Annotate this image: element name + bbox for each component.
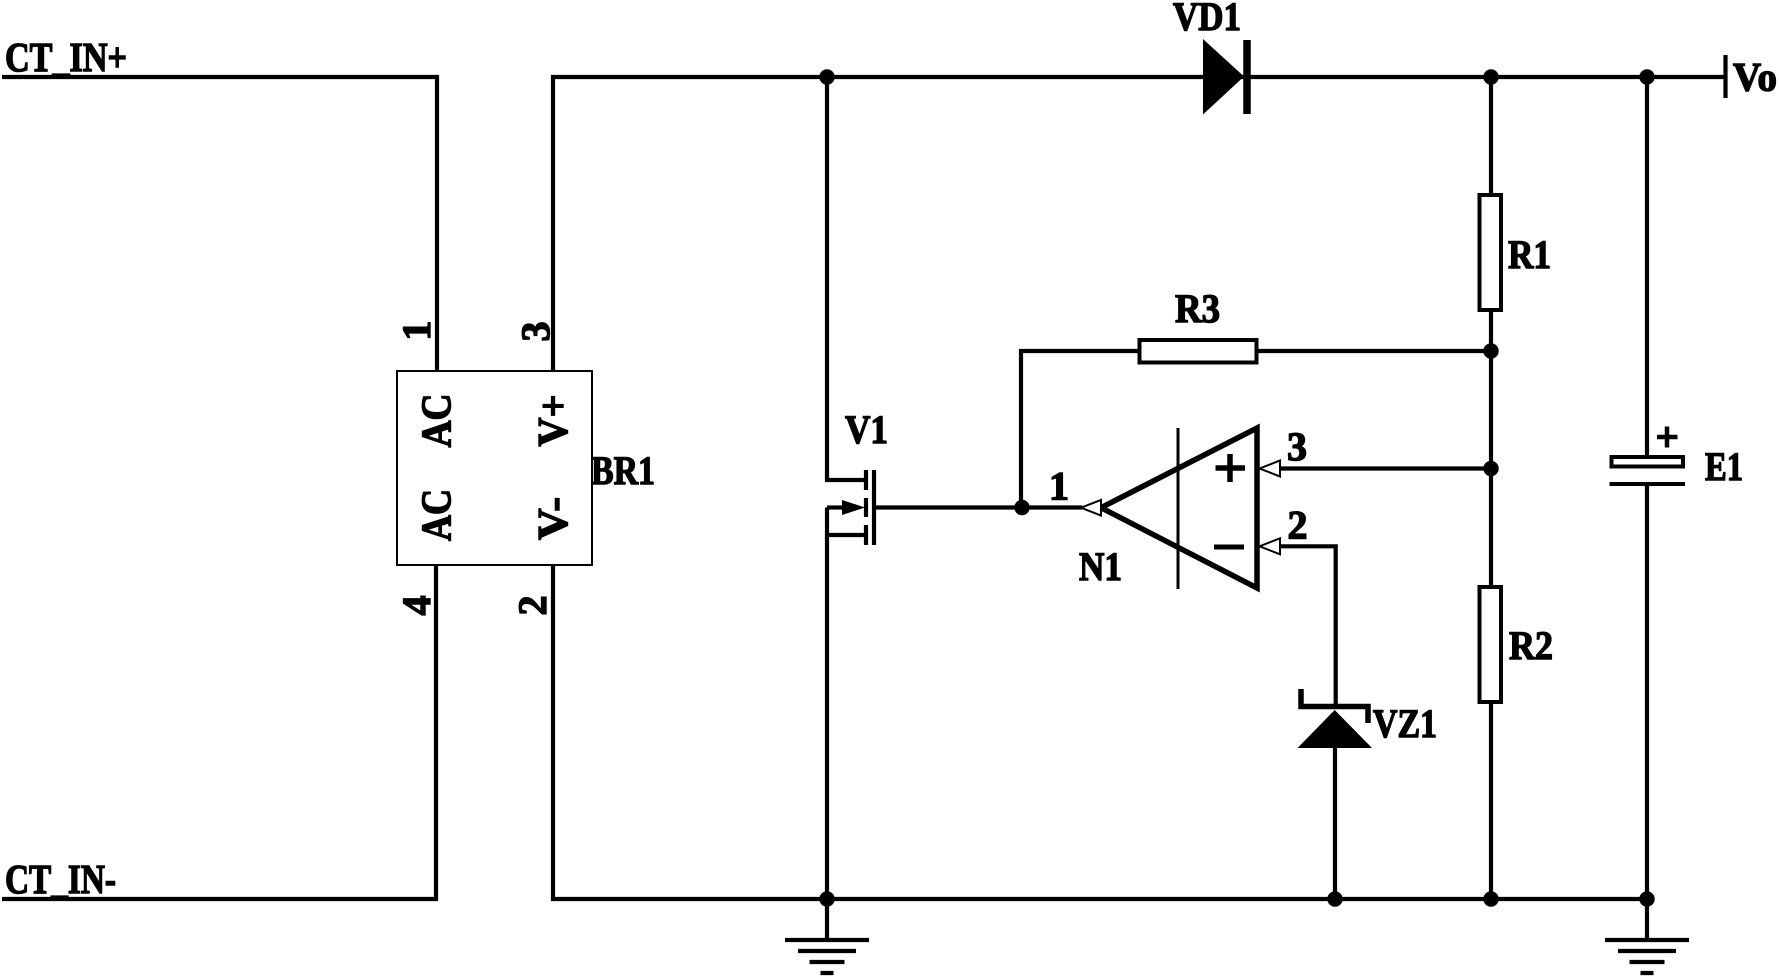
svg-text:CT_IN+: CT_IN+ xyxy=(5,34,127,80)
svg-text:AC: AC xyxy=(415,394,461,448)
svg-text:2: 2 xyxy=(510,596,555,616)
svg-text:R1: R1 xyxy=(1508,232,1551,277)
svg-text:VD1: VD1 xyxy=(1173,0,1241,39)
svg-text:V-: V- xyxy=(531,497,577,540)
svg-text:R2: R2 xyxy=(1509,623,1553,668)
svg-text:1: 1 xyxy=(1049,464,1069,509)
svg-text:N1: N1 xyxy=(1079,544,1122,589)
svg-text:2: 2 xyxy=(1288,503,1308,548)
svg-text:Vo: Vo xyxy=(1733,55,1777,100)
svg-text:R3: R3 xyxy=(1175,286,1220,331)
svg-text:4: 4 xyxy=(394,596,439,616)
svg-text:VZ1: VZ1 xyxy=(1373,701,1437,746)
svg-text:BR1: BR1 xyxy=(591,448,655,493)
svg-text:V+: V+ xyxy=(531,395,577,447)
svg-text:CT_IN-: CT_IN- xyxy=(5,856,116,902)
svg-text:3: 3 xyxy=(1287,424,1307,469)
svg-text:V1: V1 xyxy=(845,407,888,452)
svg-text:3: 3 xyxy=(513,322,558,342)
svg-text:AC: AC xyxy=(415,489,461,541)
svg-text:1: 1 xyxy=(394,321,439,341)
svg-text:E1: E1 xyxy=(1705,444,1743,489)
